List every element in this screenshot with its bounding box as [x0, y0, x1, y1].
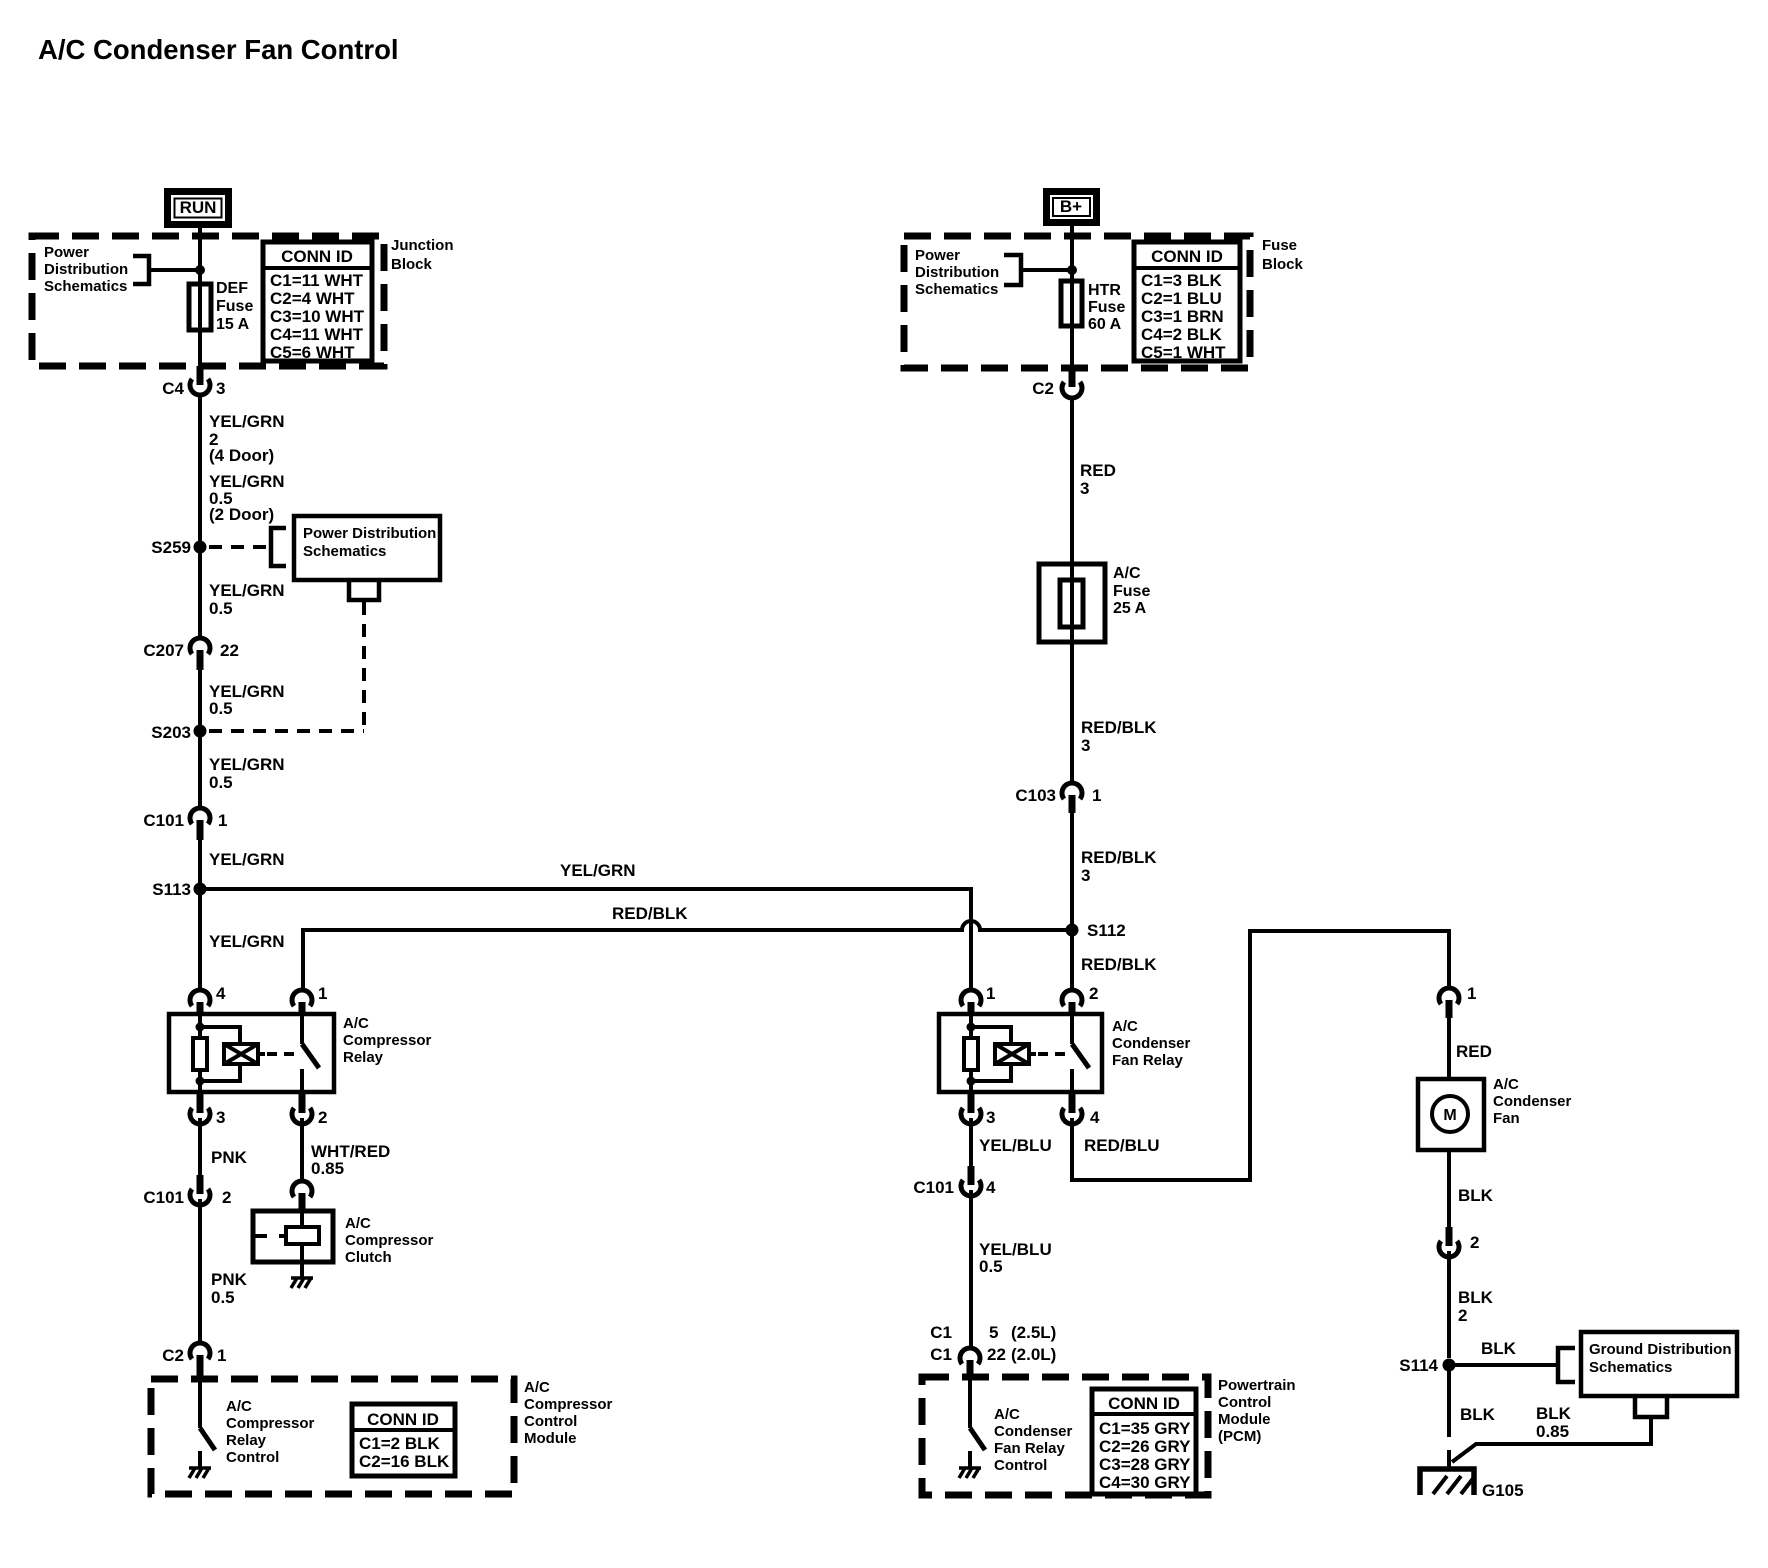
relay K: A/C Condenser Fan Relay (box): [939, 1014, 1102, 1092]
wire stub into G105: [1447, 1450, 1451, 1468]
svg-text:C101: C101: [913, 1178, 954, 1197]
wire coil branch top (condenser): [971, 1027, 1011, 1044]
svg-text:RED/BLU: RED/BLU: [1084, 1136, 1160, 1155]
svg-text:C3=1 BRN: C3=1 BRN: [1141, 307, 1224, 326]
CONN ID table (junction block): [263, 242, 372, 362]
svg-text:C2=1 BLU: C2=1 BLU: [1141, 289, 1222, 308]
label C1 22 (2.0L): [930, 1345, 1056, 1364]
module: Powertrain Control Module (dashed box): [922, 1377, 1208, 1495]
label RED/BLU: [1084, 1136, 1160, 1155]
label BLK 2: [1458, 1288, 1494, 1325]
connector fan pin 2: [1439, 1227, 1479, 1257]
ground (compressor relay control): [189, 1468, 211, 1478]
svg-text:C1=35 GRY: C1=35 GRY: [1099, 1419, 1191, 1438]
svg-text:C2=4 WHT: C2=4 WHT: [270, 289, 355, 308]
label RED/BLK (horizontal run): [612, 904, 688, 923]
node junction dot (DEF fuse tap): [195, 265, 205, 275]
wire pin 1 to fan motor: [1447, 1018, 1451, 1079]
svg-text:CONN ID: CONN ID: [1151, 247, 1223, 266]
bracket below Ground Distribution box: [1635, 1398, 1667, 1417]
clutch solenoid coil: [286, 1227, 319, 1244]
svg-text:2: 2: [1089, 984, 1098, 1003]
svg-text:C4=11 WHT: C4=11 WHT: [270, 325, 364, 344]
svg-text:YEL/GRN: YEL/GRN: [209, 932, 285, 951]
svg-text:C4: C4: [162, 379, 184, 398]
connector C4 pin 3: [162, 366, 225, 398]
switch A/C Compressor Relay Control: [200, 1428, 215, 1467]
label WHT/RED 0.85: [311, 1142, 390, 1178]
dashed link coil to switch (condenser): [1038, 1052, 1068, 1056]
dashed wire to S203 (horizontal): [209, 729, 364, 733]
svg-text:1: 1: [1092, 786, 1101, 805]
svg-text:Compressor: Compressor: [345, 1232, 434, 1249]
svg-text:B+: B+: [1060, 197, 1082, 216]
ground G105: [1420, 1469, 1524, 1500]
svg-text:(2 Door): (2 Door): [209, 505, 274, 524]
wire bracket to node: [149, 268, 197, 272]
relay switch (condenser): [1072, 1014, 1089, 1092]
wire connector 2 to S114: [1447, 1251, 1451, 1358]
svg-text:A/C Condenser Fan Control: A/C Condenser Fan Control: [38, 34, 399, 65]
relay coil feed wire (condenser): [969, 1014, 973, 1040]
svg-text:CONN ID: CONN ID: [1108, 1394, 1180, 1413]
connector C207 pin 22: [143, 638, 239, 670]
node coil bottom (condenser): [967, 1077, 976, 1086]
motor M: A/C Condenser Fan: [1418, 1079, 1484, 1150]
svg-text:0.5: 0.5: [209, 773, 233, 792]
svg-text:C2: C2: [1032, 379, 1054, 398]
svg-text:PNK: PNK: [211, 1148, 248, 1167]
svg-text:Fuse: Fuse: [1088, 299, 1125, 316]
svg-text:Schematics: Schematics: [915, 281, 998, 298]
label A/C Compressor Clutch: [345, 1215, 434, 1266]
wire S114 to ground distribution bracket: [1449, 1363, 1558, 1367]
svg-text:Power Distribution: Power Distribution: [303, 525, 436, 542]
svg-text:Schematics: Schematics: [1589, 1359, 1672, 1376]
svg-text:C5=1 WHT: C5=1 WHT: [1141, 343, 1226, 362]
resistor (relay shunt): [193, 1038, 207, 1070]
svg-text:YEL/GRN: YEL/GRN: [209, 581, 285, 600]
label YEL/GRN 0.5: [209, 755, 285, 792]
svg-text:0.5: 0.5: [209, 599, 233, 618]
svg-text:RED/BLK: RED/BLK: [1081, 718, 1157, 737]
svg-text:BLK: BLK: [1536, 1404, 1572, 1423]
svg-text:Relay: Relay: [343, 1049, 384, 1066]
svg-text:1: 1: [218, 811, 227, 830]
relay coil feed wire: [198, 1014, 202, 1040]
label RED/BLK: [1081, 955, 1157, 974]
label YEL/GRN 0.5: [209, 581, 285, 618]
svg-text:(2.0L): (2.0L): [1011, 1345, 1056, 1364]
fuse block (dashed): [904, 236, 1250, 368]
resistor (condenser relay shunt): [964, 1038, 978, 1070]
svg-text:BLK: BLK: [1458, 1288, 1494, 1307]
wire RUN to DEF fuse: [198, 228, 202, 366]
svg-text:S113: S113: [152, 880, 191, 899]
svg-text:Block: Block: [1262, 256, 1304, 273]
wire pin 3 to C101: [198, 1118, 202, 1175]
svg-text:Junction: Junction: [391, 237, 454, 254]
splice S112: [1066, 921, 1126, 940]
label A/C Condenser Fan Relay: [1112, 1018, 1191, 1069]
svg-text:Block: Block: [391, 256, 433, 273]
wire coil branch bottom: [200, 1064, 240, 1081]
svg-text:0.5: 0.5: [209, 699, 233, 718]
label BLK (to ground distribution): [1481, 1339, 1517, 1358]
label YEL/GRN: [209, 932, 285, 951]
splice S259: [151, 538, 206, 557]
label Powertrain Control Module (PCM): [1218, 1377, 1296, 1445]
svg-text:1: 1: [217, 1346, 226, 1365]
svg-text:S112: S112: [1087, 921, 1126, 940]
svg-text:Fan: Fan: [1493, 1110, 1520, 1127]
svg-text:HTR: HTR: [1088, 282, 1121, 299]
label PNK: [211, 1148, 248, 1167]
svg-text:C1=2 BLK: C1=2 BLK: [359, 1434, 440, 1453]
svg-text:M: M: [1443, 1107, 1456, 1124]
svg-text:Compressor: Compressor: [343, 1032, 432, 1049]
svg-text:PNK: PNK: [211, 1270, 248, 1289]
label A/C Condenser Fan Relay Control: [994, 1406, 1073, 1474]
label Fuse Block: [1262, 237, 1304, 273]
svg-text:3: 3: [1080, 479, 1089, 498]
connector C101 pin 2: [143, 1175, 231, 1207]
CONN ID table (fuse block): [1134, 242, 1240, 362]
note Power Distribution Schematics (fuse block): [915, 247, 999, 298]
svg-text:Compressor: Compressor: [226, 1415, 315, 1432]
svg-text:0.85: 0.85: [1536, 1422, 1569, 1441]
label DEF Fuse 15 A: [216, 280, 253, 333]
svg-text:Condenser: Condenser: [1112, 1035, 1191, 1052]
svg-text:3: 3: [1081, 866, 1090, 885]
svg-text:C101: C101: [143, 1188, 184, 1207]
label YEL/GRN 2 (4 Door): [209, 412, 285, 465]
svg-text:0.5: 0.5: [211, 1288, 235, 1307]
wire YEL/GRN S113 to condenser relay pin 1: [200, 889, 971, 990]
connector C2 (fuse block): [1032, 368, 1082, 398]
svg-text:2: 2: [222, 1188, 231, 1207]
svg-text:C1: C1: [930, 1345, 952, 1364]
A/C Compressor Clutch (box): [253, 1211, 333, 1262]
junction block (dashed): [32, 236, 384, 366]
wire BLK 0.85 to G105: [1452, 1417, 1651, 1462]
svg-text:RED: RED: [1456, 1042, 1492, 1061]
wire pin 3 to C101: [969, 1118, 973, 1166]
svg-text:Schematics: Schematics: [44, 278, 127, 295]
svg-text:5: 5: [989, 1323, 998, 1342]
node coil top (condenser): [967, 1023, 976, 1032]
svg-text:4: 4: [216, 984, 226, 1003]
relay coil symbol (X box): [224, 1044, 265, 1064]
ground (fan relay control): [959, 1468, 981, 1478]
svg-text:C3=28 GRY: C3=28 GRY: [1099, 1455, 1191, 1474]
svg-text:3: 3: [986, 1108, 995, 1127]
wire resistor to box bottom: [198, 1068, 202, 1092]
connector compressor relay pin 2: [292, 1094, 327, 1127]
svg-text:4: 4: [986, 1178, 996, 1197]
svg-text:3: 3: [216, 1108, 225, 1127]
svg-text:2: 2: [1470, 1233, 1479, 1252]
svg-text:0.5: 0.5: [979, 1257, 1003, 1276]
module: A/C Compressor Control Module (dashed box): [151, 1379, 514, 1494]
svg-text:(PCM): (PCM): [1218, 1428, 1261, 1445]
svg-text:C3=10 WHT: C3=10 WHT: [270, 307, 365, 326]
svg-text:C1=3 BLK: C1=3 BLK: [1141, 271, 1222, 290]
relay switch (compressor): [302, 1014, 319, 1092]
clutch solenoid lead wires: [253, 1211, 302, 1262]
svg-text:Distribution: Distribution: [44, 261, 128, 278]
svg-text:RED/BLK: RED/BLK: [1081, 955, 1157, 974]
connector condenser fan pin 1: [1439, 984, 1476, 1018]
wire resistor to box bottom (condenser): [969, 1068, 973, 1092]
svg-text:CONN ID: CONN ID: [281, 247, 353, 266]
wire RED/BLK S112 to compressor relay pin 1 (hop over YEL/GRN): [303, 921, 1070, 990]
svg-text:Condenser: Condenser: [1493, 1093, 1572, 1110]
svg-text:YEL/GRN: YEL/GRN: [209, 850, 285, 869]
label Junction Block: [391, 237, 454, 273]
svg-text:BLK: BLK: [1458, 1186, 1494, 1205]
svg-text:A/C: A/C: [1493, 1076, 1519, 1093]
wire RED/BLU pin 4 to condenser fan: [1072, 931, 1449, 1180]
svg-text:Distribution: Distribution: [915, 264, 999, 281]
svg-text:YEL/GRN: YEL/GRN: [560, 861, 636, 880]
svg-text:Clutch: Clutch: [345, 1249, 392, 1266]
connector condenser relay pin 4: [1062, 1094, 1100, 1127]
label YEL/GRN 0.5 (2 Door): [209, 472, 285, 524]
node junction dot (HTR fuse tap): [1067, 265, 1077, 275]
svg-text:C101: C101: [143, 811, 184, 830]
connector clutch pin: [292, 1181, 312, 1211]
connector C1 pin 22 (PCM): [960, 1348, 980, 1378]
wire clutch to ground: [300, 1262, 304, 1277]
svg-text:Fuse: Fuse: [1262, 237, 1297, 254]
bracket to Ground Distribution box: [1558, 1348, 1575, 1382]
label A/C Compressor Relay Control: [226, 1398, 315, 1466]
bracket below Power Distribution box: [349, 582, 379, 600]
ground (clutch): [291, 1278, 313, 1288]
svg-text:RED: RED: [1080, 461, 1116, 480]
svg-text:YEL/BLU: YEL/BLU: [979, 1136, 1052, 1155]
relay coil symbol (X box, condenser): [995, 1044, 1036, 1064]
label HTR Fuse 60 A: [1088, 282, 1125, 333]
label BLK: [1458, 1186, 1494, 1205]
wire C4 to C207: [198, 395, 202, 638]
connector C103 pin 1: [1015, 783, 1101, 813]
label A/C Condenser Fan: [1493, 1076, 1572, 1127]
CONN ID table (PCM): [1092, 1389, 1196, 1494]
svg-text:2: 2: [1458, 1306, 1467, 1325]
dashed wire box to S203 (vertical): [362, 602, 366, 731]
svg-text:S114: S114: [1399, 1356, 1438, 1375]
svg-text:Ground Distribution: Ground Distribution: [1589, 1341, 1731, 1358]
label C1 5 (2.5L): [930, 1323, 1056, 1342]
svg-text:A/C: A/C: [343, 1015, 369, 1032]
label BLK 0.85: [1536, 1404, 1572, 1441]
wire pin 2 to clutch connector: [300, 1118, 304, 1181]
svg-text:RED/BLK: RED/BLK: [612, 904, 688, 923]
svg-text:A/C: A/C: [1112, 1018, 1138, 1035]
svg-text:Control: Control: [524, 1413, 577, 1430]
bracket Power Distribution to wire (fuse block): [1004, 255, 1021, 285]
svg-text:1: 1: [318, 984, 327, 1003]
svg-text:DEF: DEF: [216, 280, 248, 297]
svg-text:A/C: A/C: [524, 1379, 550, 1396]
svg-text:(2.5L): (2.5L): [1011, 1323, 1056, 1342]
wire C207 to C101: [198, 670, 202, 808]
label RED/BLK 3: [1081, 848, 1157, 885]
bracket Power Distribution to wire: [133, 256, 149, 284]
wire coil branch top: [200, 1027, 240, 1044]
label A/C Compressor Control Module: [524, 1379, 613, 1447]
wire C101 to C1 (PCM): [969, 1190, 973, 1347]
svg-text:C2=26 GRY: C2=26 GRY: [1099, 1437, 1191, 1456]
connector C101 pin 4: [913, 1166, 996, 1197]
power source RUN: [164, 188, 232, 228]
connector compressor relay pin 3: [190, 1094, 225, 1127]
label YEL/BLU 0.5: [979, 1240, 1052, 1276]
svg-text:Condenser: Condenser: [994, 1423, 1073, 1440]
svg-text:C1: C1: [930, 1323, 952, 1342]
svg-text:(4 Door): (4 Door): [209, 446, 274, 465]
connector C2 pin 1: [162, 1343, 226, 1378]
svg-text:Powertrain: Powertrain: [1218, 1377, 1296, 1394]
svg-text:CONN ID: CONN ID: [367, 1410, 439, 1429]
svg-text:YEL/GRN: YEL/GRN: [209, 755, 285, 774]
label YEL/BLU: [979, 1136, 1052, 1155]
wire C1 into PCM: [968, 1378, 972, 1428]
svg-text:BLK: BLK: [1481, 1339, 1517, 1358]
svg-text:Control: Control: [994, 1457, 1047, 1474]
label YEL/GRN: [209, 850, 285, 869]
wire S114 down toward G105: [1447, 1371, 1451, 1437]
splice S203: [151, 723, 206, 742]
dashed link coil to switch: [267, 1052, 297, 1056]
connector condenser relay pin 3: [961, 1094, 995, 1127]
label RED 3: [1080, 461, 1116, 498]
switch A/C Condenser Fan Relay Control: [970, 1428, 985, 1467]
svg-text:1: 1: [986, 984, 995, 1003]
label PNK 0.5: [211, 1270, 248, 1307]
svg-text:22: 22: [987, 1345, 1006, 1364]
wire C2 to C103: [1070, 398, 1074, 783]
label YEL/GRN (horizontal run): [560, 861, 636, 880]
dashed wire S259 to bracket: [209, 545, 266, 549]
svg-text:Fuse: Fuse: [1113, 583, 1150, 600]
bracket to Power Distribution Schematics box: [271, 528, 286, 566]
svg-text:Fan Relay: Fan Relay: [1112, 1052, 1184, 1069]
svg-text:25 A: 25 A: [1113, 600, 1147, 617]
label RED: [1456, 1042, 1492, 1061]
box Power Distribution Schematics: [294, 516, 440, 580]
label YEL/GRN 0.5: [209, 682, 285, 718]
svg-text:YEL/GRN: YEL/GRN: [209, 412, 285, 431]
svg-text:S203: S203: [151, 723, 191, 742]
svg-text:60 A: 60 A: [1088, 316, 1122, 333]
svg-text:4: 4: [1090, 1108, 1100, 1127]
svg-text:Schematics: Schematics: [303, 543, 386, 560]
wire coil branch bottom (condenser): [971, 1064, 1011, 1081]
fuse HTR 60 A: [1061, 281, 1082, 326]
connector C101 pin 1: [143, 808, 227, 840]
title A/C Condenser Fan Control: [38, 34, 399, 65]
svg-text:A/C: A/C: [345, 1215, 371, 1232]
svg-text:C103: C103: [1015, 786, 1056, 805]
svg-text:Fuse: Fuse: [216, 298, 253, 315]
svg-text:Control: Control: [1218, 1394, 1271, 1411]
wire fan motor to connector 2: [1447, 1150, 1451, 1227]
svg-text:G105: G105: [1482, 1481, 1524, 1500]
wire bracket to node (fuse block): [1021, 268, 1069, 272]
svg-text:RED/BLK: RED/BLK: [1081, 848, 1157, 867]
svg-text:Control: Control: [226, 1449, 279, 1466]
power source B+: [1043, 188, 1100, 226]
label A/C Fuse 25 A: [1113, 565, 1150, 617]
connector compressor relay pin 1: [292, 984, 327, 1015]
svg-text:A/C: A/C: [226, 1398, 252, 1415]
note Power Distribution Schematics (junction block): [44, 244, 128, 295]
svg-text:C2=16 BLK: C2=16 BLK: [359, 1452, 450, 1471]
svg-text:RUN: RUN: [180, 198, 217, 217]
svg-text:C207: C207: [143, 641, 184, 660]
svg-text:BLK: BLK: [1460, 1405, 1496, 1424]
wire B+ to HTR fuse: [1070, 226, 1074, 368]
svg-text:3: 3: [1081, 736, 1090, 755]
wire C2 into module: [198, 1378, 202, 1428]
wire C101 to compressor relay pin 4: [198, 840, 202, 990]
svg-text:15 A: 15 A: [216, 316, 250, 333]
svg-text:22: 22: [220, 641, 239, 660]
svg-text:Fan Relay: Fan Relay: [994, 1440, 1066, 1457]
svg-text:C1=11 WHT: C1=11 WHT: [270, 271, 364, 290]
node coil top: [196, 1023, 205, 1032]
svg-text:Compressor: Compressor: [524, 1396, 613, 1413]
label RED/BLK 3: [1081, 718, 1157, 755]
CONN ID table (compressor control module): [352, 1404, 455, 1476]
svg-text:1: 1: [1467, 984, 1476, 1003]
label BLK (S114 to G105): [1460, 1405, 1496, 1424]
splice S114: [1399, 1356, 1455, 1375]
wire C103 to condenser relay pin 2: [1070, 813, 1074, 990]
svg-text:S259: S259: [151, 538, 191, 557]
connector compressor relay pin 4: [190, 984, 226, 1015]
svg-text:C4=30 GRY: C4=30 GRY: [1099, 1473, 1191, 1492]
svg-text:Power: Power: [44, 244, 89, 261]
svg-text:Module: Module: [1218, 1411, 1271, 1428]
svg-text:Relay: Relay: [226, 1432, 267, 1449]
svg-text:C5=6 WHT: C5=6 WHT: [270, 343, 355, 362]
svg-text:C2: C2: [162, 1346, 184, 1365]
connector condenser relay pin 2: [1062, 984, 1098, 1015]
svg-text:0.85: 0.85: [311, 1159, 344, 1178]
svg-text:C4=2 BLK: C4=2 BLK: [1141, 325, 1222, 344]
fuse A/C 25 A (in-line holder): [1039, 564, 1105, 642]
svg-text:Power: Power: [915, 247, 960, 264]
wire C101 to C2: [198, 1199, 202, 1343]
svg-text:A/C: A/C: [994, 1406, 1020, 1423]
svg-text:2: 2: [318, 1108, 327, 1127]
fuse DEF 15 A: [189, 284, 211, 330]
node coil bottom: [196, 1077, 205, 1086]
label A/C Compressor Relay: [343, 1015, 432, 1066]
svg-text:3: 3: [216, 379, 225, 398]
connector condenser relay pin 1: [961, 984, 995, 1015]
relay K: A/C Compressor Relay (box): [169, 1014, 334, 1092]
svg-text:A/C: A/C: [1113, 565, 1141, 582]
box Ground Distribution Schematics: [1581, 1332, 1737, 1396]
svg-text:Module: Module: [524, 1430, 577, 1447]
splice S113: [152, 880, 206, 899]
